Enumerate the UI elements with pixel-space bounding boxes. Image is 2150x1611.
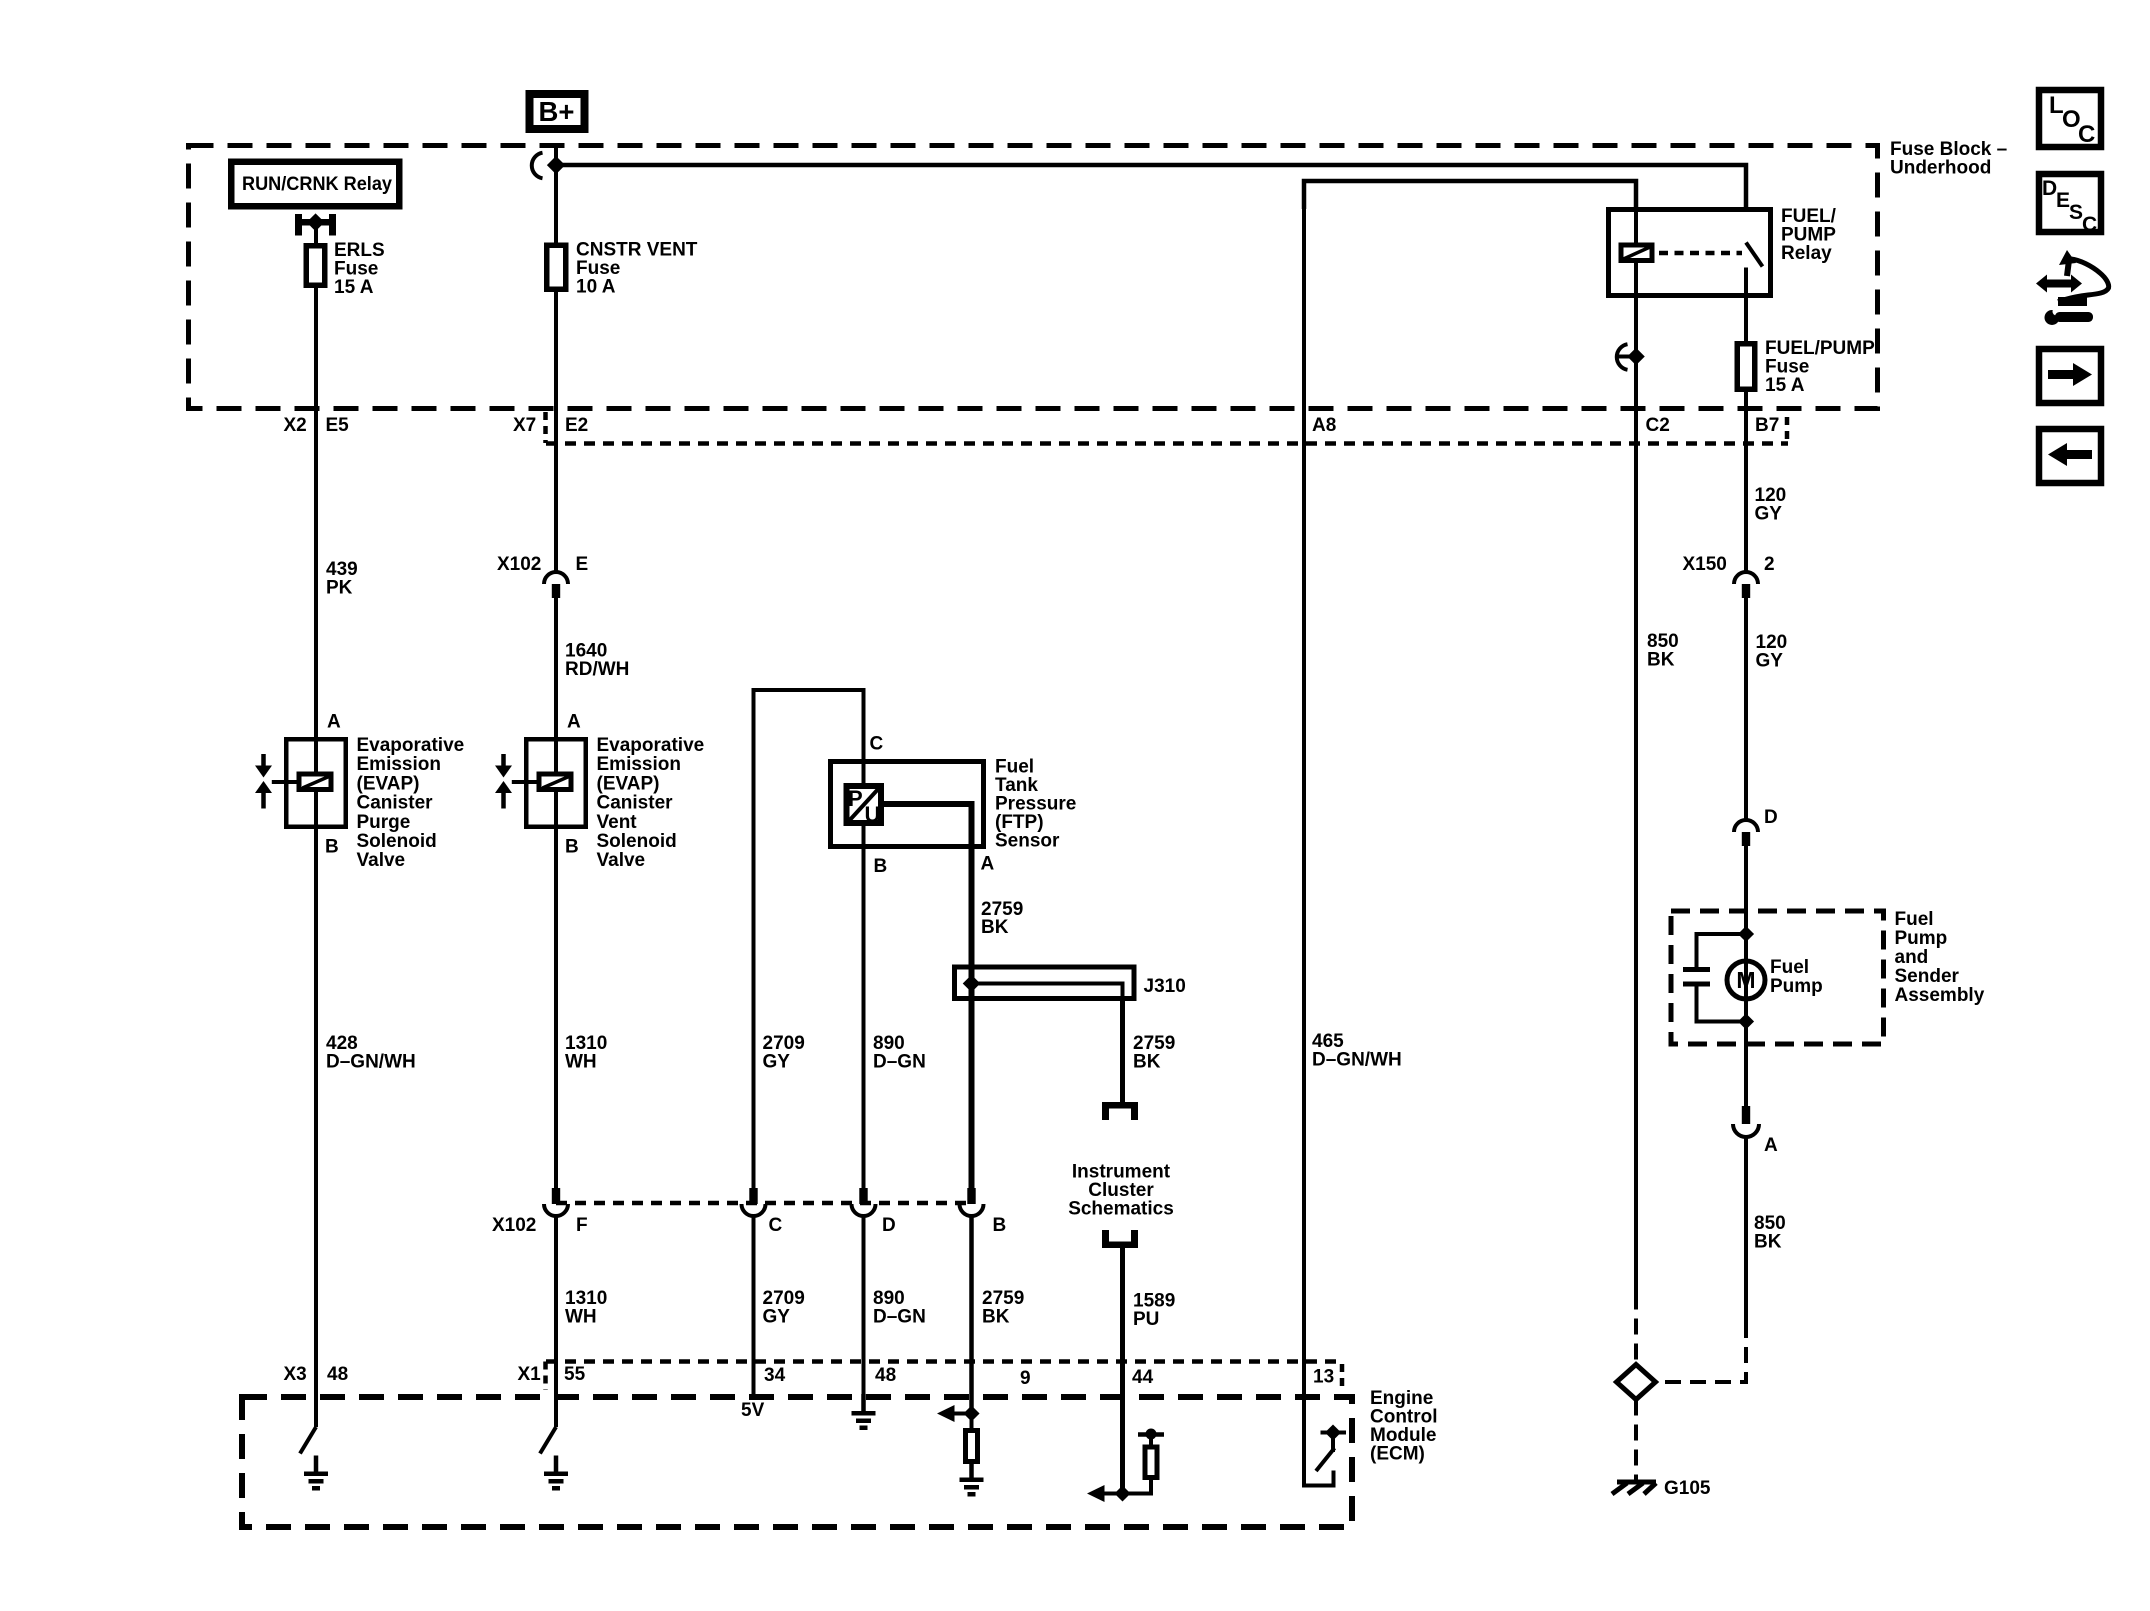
- ECM pin 9 resistor: [966, 1414, 978, 1462]
- svg-text:C: C: [769, 1215, 783, 1236]
- svg-text:BK: BK: [982, 1307, 1010, 1328]
- wire connector A to splice pack: [1744, 1137, 1748, 1322]
- wire label 2759 BK lower: [982, 1288, 1024, 1328]
- svg-text:X3: X3: [284, 1364, 307, 1385]
- connector X150 pin 2: [1734, 572, 1758, 598]
- relay actuating dashed link: [1659, 251, 1742, 256]
- svg-text:E2: E2: [565, 415, 588, 436]
- svg-text:C: C: [2082, 213, 2097, 236]
- svg-text:C: C: [2078, 121, 2095, 148]
- icon box DESC: [2039, 174, 2101, 236]
- svg-text:RD/WH: RD/WH: [565, 659, 629, 680]
- labels X150 2: [1683, 554, 1775, 575]
- bus tap symbol under RUN/CRNK relay: [295, 213, 336, 235]
- relay FUEL/PUMP box: [1609, 210, 1771, 296]
- fine dotted connector line X102 row: [556, 1201, 972, 1206]
- wire 2709 GY hook from FTP C: [754, 690, 864, 1188]
- label FUEL/PUMP Relay: [1781, 206, 1837, 264]
- svg-text:Fuel: Fuel: [1895, 909, 1934, 930]
- svg-text:D–GN/WH: D–GN/WH: [1312, 1050, 1402, 1071]
- wire motor through pump box: [1744, 961, 1748, 999]
- ECM pin 55 switch blade: [540, 1427, 556, 1454]
- svg-text:Purge: Purge: [357, 812, 411, 833]
- fuel pump and sender assembly dashed box: [1671, 911, 1884, 1044]
- FTP sensor signal wire pin A: [884, 804, 972, 849]
- connector A of fuel pump: [1733, 1106, 1778, 1156]
- chassis ground G105: [1612, 1482, 1656, 1494]
- fuse FUEL/PUMP 15 A: [1737, 338, 1875, 396]
- wire B+ drop: [554, 143, 558, 243]
- wire FTP A to J310: [969, 849, 975, 1188]
- wire label 1310 WH lower: [565, 1288, 607, 1328]
- svg-text:9: 9: [1020, 1368, 1031, 1389]
- wire label 2759 BK upper: [981, 899, 1023, 938]
- wire 439 PK column X2-E5 down to EVAP purge valve: [314, 288, 318, 772]
- labels X102 F C D B: [492, 1215, 1006, 1236]
- svg-text:RUN/CRNK Relay: RUN/CRNK Relay: [242, 174, 392, 195]
- svg-text:Fuel: Fuel: [1770, 957, 1809, 978]
- svg-text:B: B: [325, 837, 339, 858]
- pigtail arc at C2: [1617, 344, 1634, 370]
- relay coil wire upper: [1634, 207, 1638, 243]
- fine dotted connector line bottom row: [546, 1359, 1342, 1364]
- svg-text:34: 34: [764, 1365, 786, 1386]
- svg-text:D: D: [2042, 177, 2057, 200]
- fuse ERLS 15 A: [306, 240, 384, 298]
- svg-text:Underhood: Underhood: [1890, 158, 1991, 179]
- labels X102 E: [497, 554, 588, 575]
- wire relay coil to C2: [1634, 298, 1638, 1294]
- svg-text:Solenoid: Solenoid: [357, 831, 437, 852]
- EVAP canister purge solenoid valve box: [286, 739, 346, 827]
- svg-text:A: A: [1764, 1135, 1778, 1156]
- wire X150 to D: [1744, 598, 1748, 820]
- wire X102 D to ECM pin 48: [862, 1216, 866, 1394]
- ECM pin 13 low side driver switch: [1304, 1394, 1346, 1486]
- relay switch lower contact: [1744, 268, 1748, 299]
- svg-text:Emission: Emission: [597, 754, 681, 775]
- wire vent valve B to X102 F: [554, 792, 558, 1188]
- ECM pin 44 arrow to left: [1087, 1485, 1123, 1502]
- connector X102 pin E: [544, 572, 568, 598]
- wire X102 E to EVAP vent valve: [554, 598, 558, 772]
- purge valve flow arrows: [255, 754, 297, 809]
- label Fuel Pump and Sender Assembly: [1895, 909, 1985, 1006]
- FTP sensor P/U transducer square: [847, 786, 882, 827]
- relay coil: [1621, 245, 1652, 261]
- svg-text:15 A: 15 A: [334, 277, 374, 298]
- pigtail arc at B+ junction: [532, 153, 543, 179]
- svg-text:E: E: [2056, 189, 2070, 212]
- wire label 1640 RD/WH: [565, 641, 629, 681]
- label Instrument Cluster Schematics: [1068, 1162, 1174, 1220]
- wire off-page bracket to ECM pin 44: [1120, 1248, 1125, 1494]
- svg-text:WH: WH: [565, 1052, 597, 1073]
- connector X102 pin F: [544, 1188, 568, 1216]
- ECM pin 48 switch blade: [300, 1427, 316, 1454]
- svg-text:D–GN: D–GN: [873, 1052, 926, 1073]
- svg-text:(EVAP): (EVAP): [597, 773, 660, 794]
- connector D of fuel pump: [1734, 807, 1778, 846]
- svg-text:13: 13: [1313, 1367, 1334, 1388]
- wire label 439 PK: [326, 559, 358, 599]
- wire label 1310 WH upper: [565, 1033, 607, 1073]
- svg-text:D: D: [882, 1215, 896, 1236]
- svg-text:Relay: Relay: [1781, 243, 1832, 264]
- svg-text:Valve: Valve: [597, 850, 646, 871]
- icon vehicle with double arrow and wrench: [2036, 250, 2109, 325]
- fuse CNSTR VENT 10 A: [547, 240, 698, 298]
- ECM ground below pin 48 X3: [304, 1456, 328, 1491]
- wire fuse to B7: [1744, 392, 1748, 573]
- svg-text:U: U: [865, 802, 881, 827]
- wire X102 F to ECM pin 55: [554, 1216, 558, 1427]
- label Engine Control Module (ECM): [1370, 1388, 1438, 1465]
- connector X102 pin C: [742, 1188, 766, 1216]
- off-page bracket upper: [1102, 1102, 1138, 1120]
- svg-text:15 A: 15 A: [1765, 375, 1805, 396]
- ECM ground below pin 55 X1: [544, 1456, 568, 1491]
- wire label 890 D-GN upper: [873, 1033, 926, 1073]
- svg-text:A8: A8: [1312, 415, 1336, 436]
- dotted tick at X1: [543, 1362, 548, 1391]
- dashed wire fuel pump return to splice: [1656, 1322, 1746, 1382]
- svg-text:C: C: [870, 734, 884, 755]
- label Evaporative Emission (EVAP) Canister Vent Solenoid Valve: [597, 735, 705, 871]
- wire label 1589 PU: [1133, 1291, 1175, 1331]
- svg-text:D: D: [1764, 807, 1778, 828]
- purge valve solenoid coil: [299, 774, 331, 790]
- svg-text:5V: 5V: [741, 1400, 765, 1421]
- fuel pump motor: [1727, 961, 1765, 999]
- svg-text:X1: X1: [518, 1364, 542, 1385]
- svg-text:PK: PK: [326, 578, 353, 599]
- svg-text:B: B: [993, 1215, 1007, 1236]
- icon box arrow left: [2039, 429, 2101, 483]
- dotted tick at pin 13: [1340, 1364, 1345, 1392]
- svg-text:Canister: Canister: [597, 793, 674, 814]
- svg-text:44: 44: [1132, 1367, 1154, 1388]
- ECM pin 44 pull-up resistor: [1123, 1429, 1165, 1494]
- svg-text:Evaporative: Evaporative: [357, 735, 465, 756]
- bus wire ECM A8 to relay coil: [1304, 181, 1636, 209]
- svg-text:F: F: [576, 1215, 588, 1236]
- svg-text:(ECM): (ECM): [1370, 1444, 1425, 1465]
- svg-text:Evaporative: Evaporative: [597, 735, 705, 756]
- svg-text:X102: X102: [497, 554, 541, 575]
- wire label 465 D-GN/WH: [1312, 1031, 1402, 1071]
- label Fuel Pump: [1770, 957, 1823, 997]
- svg-text:2: 2: [1764, 554, 1775, 575]
- fuel tank pressure sensor box: [831, 762, 984, 847]
- svg-text:BK: BK: [1754, 1232, 1782, 1253]
- wire X102 C to ECM pin 34: [752, 1216, 756, 1394]
- svg-text:Pump: Pump: [1895, 928, 1948, 949]
- junction dot pin 9: [963, 1405, 979, 1421]
- wire X102 B to ECM pin 9: [969, 1216, 974, 1414]
- svg-text:Schematics: Schematics: [1068, 1199, 1174, 1220]
- svg-text:D–GN: D–GN: [873, 1307, 926, 1328]
- svg-text:Valve: Valve: [357, 850, 406, 871]
- svg-text:E5: E5: [326, 415, 350, 436]
- junction dot J310: [963, 975, 981, 993]
- svg-text:GY: GY: [763, 1307, 791, 1328]
- svg-text:Emission: Emission: [357, 754, 441, 775]
- wire label 850 BK lower: [1754, 1213, 1786, 1253]
- junction dot at B+ bus: [547, 156, 565, 174]
- wire label 2709 GY lower: [763, 1288, 805, 1328]
- EVAP canister vent solenoid valve box: [526, 739, 586, 827]
- svg-text:GY: GY: [763, 1052, 791, 1073]
- wire label 120 GY below X150: [1756, 632, 1788, 672]
- svg-text:PU: PU: [1133, 1309, 1159, 1330]
- svg-text:Pump: Pump: [1770, 976, 1823, 997]
- wire relay switch to fuse: [1744, 298, 1748, 341]
- fuel pump capacitor: [1683, 934, 1746, 1022]
- wire pump box to connector A: [1744, 999, 1748, 1106]
- engine control module dashed box: [242, 1397, 1352, 1527]
- connector row labels X2 E5: [284, 415, 350, 436]
- FTP sensor ground wire pin B: [862, 826, 866, 1188]
- bus wire B+ to fuel pump relay switch: [556, 165, 1746, 209]
- icon box arrow right: [2039, 349, 2101, 403]
- svg-text:and: and: [1895, 947, 1929, 968]
- relay coil wire lower: [1634, 263, 1638, 298]
- wire label 890 D-GN lower: [873, 1288, 926, 1328]
- svg-text:X7: X7: [513, 415, 536, 436]
- bottom row labels X3 48: [284, 1364, 349, 1385]
- wire label 428 D-GN/WH: [326, 1033, 416, 1073]
- svg-text:48: 48: [875, 1365, 896, 1386]
- svg-text:D–GN/WH: D–GN/WH: [326, 1052, 416, 1073]
- vent valve solenoid coil: [539, 774, 571, 790]
- label Fuel Tank Pressure (FTP) Sensor: [995, 757, 1076, 852]
- svg-text:B: B: [565, 837, 579, 858]
- dotted tick at B7: [1785, 417, 1790, 443]
- fuse block underhood dashed box: [189, 146, 1878, 409]
- svg-text:Sensor: Sensor: [995, 831, 1060, 852]
- wire A8 to ECM pin 13: [1302, 181, 1306, 1394]
- connector X102 pin D: [852, 1188, 876, 1216]
- svg-text:BK: BK: [1647, 650, 1675, 671]
- wire D to fuel pump motor: [1744, 846, 1748, 961]
- label Evaporative Emission (EVAP) Canister Purge Solenoid Valve: [357, 735, 465, 871]
- RUN/CRNK Relay label box: [228, 159, 403, 210]
- svg-text:GY: GY: [1755, 504, 1783, 525]
- splice J310 box: [955, 967, 1135, 999]
- svg-text:Solenoid: Solenoid: [597, 831, 677, 852]
- wire label 2759 BK right of J310: [1133, 1033, 1175, 1073]
- wire label 850 BK left of X150: [1647, 631, 1679, 671]
- wire purge valve B to ECM pin 48: [314, 792, 318, 1427]
- dashed wire relay coil return to splice: [1634, 1294, 1638, 1365]
- svg-text:B7: B7: [1755, 415, 1779, 436]
- connector row labels X7 E2: [513, 415, 588, 436]
- svg-text:E: E: [576, 554, 589, 575]
- junction dot capacitor top: [1738, 926, 1754, 942]
- svg-text:48: 48: [327, 1364, 348, 1385]
- splice J310 internal lead: [972, 984, 1123, 1002]
- junction dot capacitor bottom: [1738, 1013, 1754, 1029]
- svg-text:WH: WH: [565, 1307, 597, 1328]
- wire ERLS fuse feed: [314, 225, 318, 243]
- vent valve flow arrows: [495, 754, 537, 809]
- svg-text:X102: X102: [492, 1215, 536, 1236]
- icon box LOC: [2039, 90, 2101, 148]
- bottom row labels X1 55: [518, 1364, 586, 1385]
- svg-text:S: S: [2069, 201, 2083, 224]
- svg-text:B+: B+: [539, 96, 575, 127]
- svg-text:BK: BK: [1133, 1052, 1161, 1073]
- svg-text:55: 55: [564, 1364, 586, 1385]
- wire 1640 column fuse to X102 E: [554, 292, 558, 572]
- wire label 120 GY upper: [1755, 485, 1787, 525]
- svg-text:Sender: Sender: [1895, 966, 1960, 987]
- svg-text:J310: J310: [1144, 976, 1186, 997]
- dashed wire splice to G105: [1634, 1400, 1638, 1481]
- dotted tick at X7: [543, 412, 548, 443]
- svg-text:GY: GY: [1756, 651, 1784, 672]
- svg-text:Canister: Canister: [357, 793, 434, 814]
- svg-text:Vent: Vent: [597, 812, 638, 833]
- ECM ground below pin 9 resistor: [960, 1464, 984, 1497]
- svg-text:X150: X150: [1683, 554, 1727, 575]
- svg-text:Assembly: Assembly: [1895, 985, 1985, 1006]
- fine dotted connector line top row: [546, 441, 1788, 446]
- svg-text:B: B: [874, 856, 888, 877]
- wire J310 to instrument cluster off-page: [1120, 1001, 1125, 1103]
- svg-text:C2: C2: [1646, 415, 1670, 436]
- off-page bracket lower: [1102, 1230, 1138, 1248]
- svg-text:P: P: [848, 786, 863, 811]
- svg-text:A: A: [567, 712, 581, 733]
- node B+: [526, 90, 589, 133]
- junction dot at C2 pigtail: [1627, 348, 1645, 366]
- splice diamond: [1617, 1365, 1656, 1400]
- svg-text:BK: BK: [981, 917, 1009, 938]
- svg-text:X2: X2: [284, 415, 307, 436]
- svg-text:A: A: [327, 712, 341, 733]
- svg-text:10 A: 10 A: [576, 277, 616, 298]
- junction dot pin 44: [1114, 1485, 1130, 1501]
- wire label 2709 GY upper: [763, 1033, 805, 1073]
- ECM pin 9 arrow to left: [937, 1405, 972, 1422]
- svg-text:G105: G105: [1664, 1478, 1711, 1499]
- connector X102 pin B: [960, 1188, 984, 1216]
- svg-text:(EVAP): (EVAP): [357, 773, 420, 794]
- svg-text:A: A: [981, 854, 995, 875]
- ECM ground at pin 48: [852, 1394, 876, 1430]
- label Fuse Block - Underhood: [1890, 139, 2007, 179]
- relay switch blade: [1746, 243, 1763, 267]
